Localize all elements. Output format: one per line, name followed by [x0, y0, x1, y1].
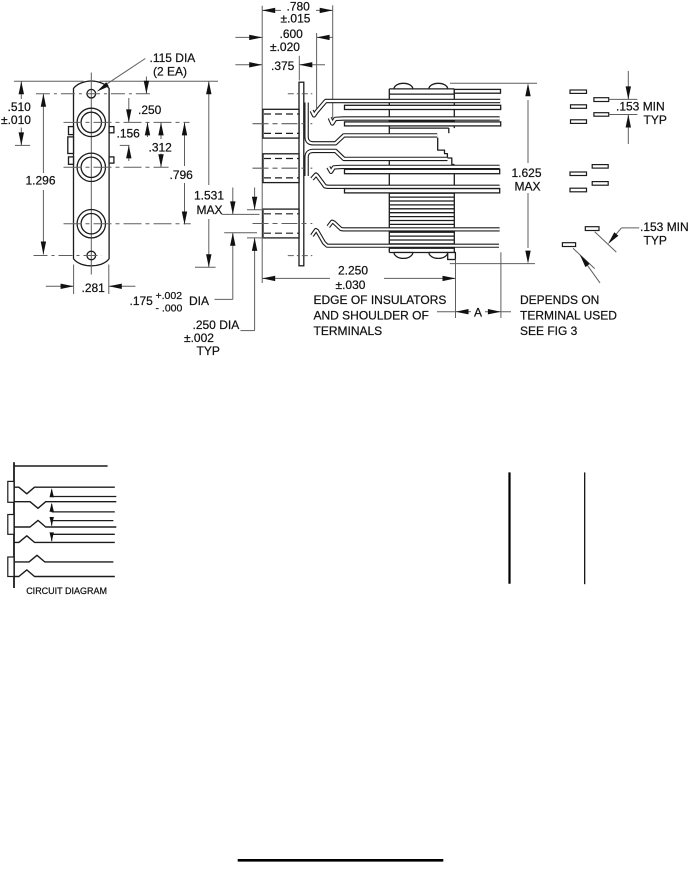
- body rect B top: [389, 105, 454, 107]
- terminal hook 1B: [330, 118, 500, 124]
- eyelet terminal 2 centerline: [64, 166, 169, 168]
- dim .375 arrows: [235, 64, 262, 66]
- dim .312 upper arrow: [160, 122, 162, 139]
- body bottom cap line: [389, 247, 454, 249]
- svg-text:.175: .175: [130, 294, 154, 308]
- eyelet terminal 2 outer: [77, 153, 105, 181]
- plate-top extension line: [14, 80, 84, 82]
- dim .250 arrows: [254, 188, 256, 210]
- dim .796 lower arrow: [184, 183, 186, 225]
- bottom hole centerline: [34, 255, 102, 257]
- dim 1.625 line+arrows: [527, 100, 529, 163]
- circuit wire 5 (spring contact): [14, 555, 113, 562]
- svg-text:1.625: 1.625: [512, 166, 542, 180]
- bottom cap step: [448, 253, 456, 260]
- svg-text:.115 DIA: .115 DIA: [150, 51, 196, 65]
- terminal hook 2B: [312, 175, 500, 187]
- svg-text:±.015: ±.015: [281, 12, 311, 26]
- plate left tab lower: [69, 157, 74, 164]
- body narrow rect top: [389, 127, 449, 129]
- circuit tap 4: [52, 533, 115, 535]
- circuit bus line: [13, 462, 15, 588]
- circuit tap 3: [52, 520, 114, 522]
- insulator 1 hidden bore top: [264, 113, 299, 115]
- dim .250 ext bottom: [247, 237, 264, 239]
- svg-text:±.010: ±.010: [1, 113, 31, 127]
- svg-text:.600: .600: [280, 27, 304, 41]
- leader .153 diag: [621, 227, 639, 229]
- terminal hook 2A: [328, 167, 499, 172]
- svg-text:MAX: MAX: [515, 180, 541, 194]
- table rule left: [508, 472, 510, 583]
- ext line x332 (.780 right): [332, 5, 334, 118]
- bump bottom left: [394, 253, 413, 259]
- dim .780 line+arrows: [262, 9, 281, 11]
- dim .250 ext top: [247, 209, 264, 211]
- dim 1.625 ext top: [450, 82, 537, 84]
- circuit tap 2: [52, 511, 115, 513]
- notch centerline ext right: [120, 144, 130, 146]
- dim .153 diag lower arrow: [580, 255, 600, 283]
- svg-text:2.250: 2.250: [338, 263, 368, 277]
- svg-text:- .000: - .000: [156, 303, 183, 315]
- svg-text:.796: .796: [170, 168, 194, 182]
- insulator 1 hidden bore bottom: [264, 132, 299, 134]
- dim .312 lower arrow: [160, 154, 162, 168]
- lead from top cap: [454, 89, 500, 93]
- eyelet terminal 3 inner: [81, 214, 101, 234]
- circuit wire 6 (spring contact): [14, 570, 115, 577]
- dim .175 ext top: [222, 213, 260, 215]
- circuit terminal body 3: [8, 557, 14, 577]
- ext line x262 (.780/.600/.375/2.250 left): [261, 6, 263, 283]
- insulator 1 centerline: [253, 123, 313, 125]
- lead row1 upper: [345, 105, 501, 109]
- eyelet terminal 1 inner: [81, 112, 101, 132]
- dim .175 ext bottom: [224, 232, 257, 234]
- terminal hook 1A: [312, 101, 501, 115]
- insulator 3 hidden bore top: [264, 213, 299, 215]
- body rect B bottom: [389, 120, 454, 122]
- dim 2.250 line left: [262, 277, 330, 279]
- dim .156 upper arrow: [128, 98, 130, 122]
- plate-bottom extension line: [195, 266, 216, 268]
- bottom mounting hole .115 DIA: [87, 251, 96, 260]
- svg-text:SEE FIG 3: SEE FIG 3: [520, 324, 578, 338]
- svg-text:(2 EA): (2 EA): [153, 65, 187, 79]
- svg-text:MAX: MAX: [197, 203, 223, 217]
- dim .153 diag ext lines: [595, 232, 617, 252]
- svg-text:TYP: TYP: [644, 113, 667, 127]
- bump top left: [394, 83, 413, 89]
- leader .250: [241, 330, 255, 332]
- dim .281 ext lines: [73, 265, 75, 295]
- ground strap lower branch: [307, 151, 448, 176]
- circuit wire 3 (spring contact): [14, 520, 116, 527]
- body window steps: [438, 138, 455, 165]
- dim .796 upper arrow: [184, 122, 186, 166]
- dim .281 left arrow: [46, 285, 74, 287]
- terminal end bars group 2: [592, 165, 608, 169]
- coil winding hatch: [389, 196, 454, 198]
- circuit tap 1: [52, 496, 117, 498]
- svg-text:±.020: ±.020: [270, 40, 300, 54]
- dim 1.531 upper arrow: [208, 81, 210, 185]
- insulator 2 body: [263, 154, 299, 183]
- lead row2 lower: [345, 189, 500, 193]
- terminal end bars group 1: [570, 90, 587, 93]
- svg-text:TYP: TYP: [197, 344, 220, 358]
- svg-text:±.030: ±.030: [336, 278, 366, 292]
- svg-text:DEPENDS ON: DEPENDS ON: [520, 293, 599, 307]
- insulator 3 body: [263, 209, 299, 238]
- plate left notch: [68, 137, 74, 154]
- dim .153 top arrows: [627, 71, 629, 100]
- dim 1.296 upper arrow: [42, 94, 44, 173]
- plate vertical centerline: [90, 73, 92, 275]
- front view mounting plate outline: [74, 81, 110, 266]
- svg-text:1.296: 1.296: [26, 174, 56, 188]
- insulator 2 hidden bore bottom: [264, 177, 299, 179]
- capacitor body top edge: [389, 88, 454, 90]
- plate bottom-hole centerline: [288, 255, 313, 257]
- dim .156 lower arrow: [128, 145, 130, 161]
- body coil top line: [389, 192, 454, 194]
- svg-text:A: A: [474, 306, 482, 320]
- svg-text:1.531: 1.531: [194, 189, 224, 203]
- ext line x299 (.375 right): [298, 56, 300, 81]
- ground strap upper branch: [307, 103, 438, 144]
- svg-text:±.002: ±.002: [184, 331, 214, 345]
- svg-text:EDGE OF INSULATORS: EDGE OF INSULATORS: [314, 293, 447, 307]
- plate right tab upper: [109, 127, 114, 133]
- dim 2.250 line right: [384, 277, 456, 279]
- svg-text:CIRCUIT DIAGRAM: CIRCUIT DIAGRAM: [26, 586, 107, 596]
- dim A arrows: [456, 311, 472, 313]
- dim .175 arrows: [232, 188, 234, 215]
- bump bottom right: [429, 253, 448, 259]
- dim .250 lower arrow: [147, 122, 149, 137]
- svg-text:.250: .250: [138, 103, 162, 117]
- eyelet terminal 1 outer: [77, 108, 105, 136]
- insulator 1 body: [263, 109, 299, 138]
- dim .281 right arrow: [109, 285, 136, 287]
- svg-text:DIA: DIA: [189, 294, 209, 308]
- svg-text:.153 MIN: .153 MIN: [616, 100, 665, 114]
- circuit wire 4 (spring contact): [14, 536, 115, 543]
- leader .115 DIA: [103, 59, 145, 87]
- terminal hook 3A: [328, 222, 499, 230]
- eyelet terminal 3 outer: [77, 210, 105, 238]
- svg-text:.312: .312: [149, 141, 173, 155]
- top hole centerline: [36, 93, 151, 95]
- svg-text:.375: .375: [271, 59, 295, 73]
- footer rule: [238, 859, 444, 862]
- circuit wire 1 (V contact): [14, 487, 115, 494]
- dim 1.625 ext bottom: [450, 263, 535, 265]
- terminal hook 3B: [312, 230, 499, 246]
- eyelet terminal 3 centerline: [64, 223, 191, 225]
- insulator 2 hidden bore top: [264, 158, 299, 160]
- plate top-hole centerline: [288, 93, 313, 95]
- svg-text:TYP: TYP: [644, 234, 667, 248]
- dim .510 lower arrow: [20, 128, 22, 146]
- svg-text:.281: .281: [82, 281, 106, 295]
- svg-text:TERMINALS: TERMINALS: [314, 324, 383, 338]
- svg-text:.153 MIN: .153 MIN: [640, 220, 688, 234]
- dim A leader: [437, 311, 456, 313]
- eyelet terminal 2 inner: [81, 157, 101, 177]
- ext line v2 (shoulder): [500, 252, 502, 318]
- lead row1 lower: [345, 122, 501, 126]
- eyelet terminal 1 centerline: [64, 121, 190, 123]
- dim .510 upper arrow: [20, 81, 22, 99]
- dim .250 upper arrow: [145, 77, 147, 94]
- body top cap line: [389, 93, 454, 95]
- dim .153 top ext lines: [609, 98, 638, 100]
- terminal end bar diag lower: [562, 243, 575, 247]
- bump top right: [429, 83, 448, 89]
- insulator 3 centerline: [253, 223, 313, 225]
- capacitor body bottom edge: [389, 252, 454, 254]
- insulator 2 centerline: [253, 167, 313, 169]
- leader .175: [215, 298, 233, 300]
- notch centerline ext left: [15, 144, 30, 146]
- circuit terminal body 2: [8, 515, 14, 535]
- circuit top wire: [14, 465, 108, 467]
- svg-text:AND SHOULDER OF: AND SHOULDER OF: [314, 309, 429, 323]
- dim 1.296 lower arrow: [42, 190, 44, 255]
- plate right tab lower: [109, 157, 114, 163]
- dim 1.531 lower arrow: [208, 219, 210, 267]
- ext line v1 (edge of insulators): [455, 259, 457, 318]
- svg-text:TERMINAL USED: TERMINAL USED: [520, 309, 617, 323]
- table rule right: [584, 472, 586, 584]
- dim .600 arrows: [235, 36, 262, 38]
- circuit terminal body 1: [8, 481, 14, 502]
- lead row2 upper: [345, 169, 500, 173]
- svg-text:.250 DIA: .250 DIA: [193, 318, 240, 332]
- top mounting hole .115 DIA: [87, 89, 96, 98]
- svg-text:.156: .156: [117, 127, 141, 141]
- ext line x316 (.600 right): [316, 33, 318, 109]
- svg-text:.510: .510: [8, 100, 32, 114]
- plate left tab upper: [69, 127, 74, 135]
- mounting plate side view: [299, 82, 304, 266]
- capacitor body right edge: [453, 89, 455, 128]
- insulator 3 hidden bore bottom: [264, 232, 299, 234]
- terminal end bar diag upper: [585, 227, 599, 231]
- capacitor body left edge: [388, 89, 390, 137]
- svg-text:+.002: +.002: [156, 290, 183, 302]
- circuit wire 2 (V contact): [14, 502, 116, 509]
